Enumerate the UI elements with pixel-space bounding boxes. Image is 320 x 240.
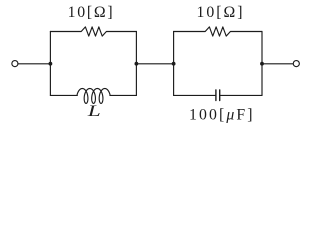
svg-text:L: L — [86, 103, 101, 120]
svg-text:10[Ω]: 10[Ω] — [197, 4, 243, 21]
svg-text:10[Ω]: 10[Ω] — [68, 4, 113, 21]
svg-text:100[μF]: 100[μF] — [189, 106, 252, 123]
